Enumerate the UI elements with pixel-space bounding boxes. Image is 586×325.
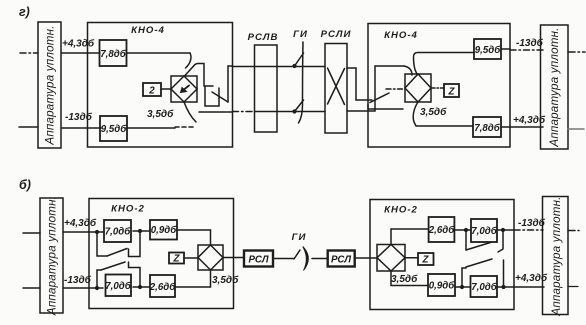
svg-text:7,0дб: 7,0дб <box>471 282 497 293</box>
multiplex equipment box right <box>541 25 569 149</box>
hybrid transformer (дифсистема) left <box>171 76 197 102</box>
wire to КНО-2 bottom <box>63 287 103 289</box>
wire ГИ to РСЛ right <box>312 258 328 260</box>
svg-text:Z: Z <box>448 87 456 98</box>
node <box>138 229 142 233</box>
node <box>464 228 468 232</box>
attenuator 7,0дб bottom <box>106 275 132 297</box>
wire РСЛ to ГИ <box>273 258 294 260</box>
attenuator 2,6дб <box>150 275 175 297</box>
wire out bottom <box>497 286 544 288</box>
svg-text:0,9дб: 0,9дб <box>429 281 455 292</box>
wire РСЛИ bottom to bypass <box>347 66 404 111</box>
switch blade bottom <box>295 100 304 112</box>
hybrid transformer BL <box>198 245 223 270</box>
wire РСЛИ to КНО-4 step <box>347 68 372 100</box>
wire to 9,5дб <box>61 127 101 129</box>
attenuator 2,6дб BR <box>429 217 455 242</box>
ГИ arc contact (crescent) <box>303 247 309 271</box>
wire hybrid top to 2,6дб <box>391 229 429 245</box>
svg-text:РСЛВ: РСЛВ <box>248 32 279 43</box>
svg-text:3,5дб: 3,5дб <box>420 106 447 118</box>
svg-text:ГИ: ГИ <box>293 29 308 40</box>
wire out top <box>497 229 514 231</box>
selector ГИ wiper bar <box>299 42 304 123</box>
wire output top-right dash-dot <box>568 51 585 53</box>
svg-text:г): г) <box>19 5 30 19</box>
svg-text:0,9дб: 0,9дб <box>151 225 177 236</box>
svg-text:КНО-4: КНО-4 <box>384 30 418 41</box>
svg-text:РСЛ: РСЛ <box>248 255 268 266</box>
attenuator 0,9дб <box>150 220 177 240</box>
svg-text:Z: Z <box>422 255 430 266</box>
wire to КНО-2 top <box>63 231 103 233</box>
svg-text:РСЛ: РСЛ <box>331 255 351 266</box>
arrow mark inside hybrid <box>184 86 189 90</box>
wire 7,8дб output <box>127 52 191 54</box>
multiplex equipment box right b <box>543 197 569 315</box>
svg-text:9,5дб: 9,5дб <box>101 124 127 135</box>
svg-text:-13дб: -13дб <box>516 37 544 49</box>
wire <box>133 230 150 232</box>
wire jack to box edge <box>228 66 233 102</box>
jack stub <box>368 104 403 109</box>
block КНО-2 left <box>89 199 234 309</box>
bypass switch upper right <box>465 230 467 250</box>
svg-text:-13дб: -13дб <box>518 217 546 229</box>
crossover X <box>328 68 345 105</box>
svg-text:ГИ: ГИ <box>292 232 307 243</box>
wire input bottom-left b <box>23 287 40 289</box>
wire 7,8дб out <box>501 126 543 128</box>
svg-text:7,8дб: 7,8дб <box>474 123 500 134</box>
svg-text:7,0дб: 7,0дб <box>105 281 131 292</box>
wire hybrid to Z dash-dot <box>431 87 444 89</box>
svg-text:КНО-2: КНО-2 <box>111 204 145 215</box>
wire 0,9дб to hybrid <box>177 230 211 245</box>
multiplex equipment box left (Аппаратура уплотн.) <box>38 22 61 148</box>
wire bypass out <box>199 111 233 113</box>
wire <box>455 286 471 288</box>
block КНО-2 right <box>370 200 514 310</box>
block КНО-4 left <box>88 23 233 148</box>
svg-text:3,5дб: 3,5дб <box>391 273 418 285</box>
wire hybrid top to jack <box>185 64 205 87</box>
svg-text:7,8дб: 7,8дб <box>100 49 126 60</box>
balance network box 2 <box>143 83 161 96</box>
svg-text:7,0дб: 7,0дб <box>471 226 497 237</box>
svg-text:РСЛИ: РСЛИ <box>321 29 352 40</box>
attenuator 7,0дб BR bottom <box>471 276 498 297</box>
balance network Z BR <box>418 253 434 265</box>
wire 9,5дб output dashed <box>126 127 175 129</box>
wire dash-dot input top-left <box>20 52 38 54</box>
svg-text:3,5дб: 3,5дб <box>212 274 239 286</box>
wire to 7,8дб <box>61 52 100 54</box>
node <box>501 285 505 289</box>
wire hybrid bottom to 0,9дб <box>391 271 428 286</box>
svg-text:+4,3дб: +4,3дб <box>64 217 97 229</box>
node <box>95 286 99 290</box>
attenuator 7,0дб top <box>104 220 131 242</box>
svg-text:+4,3дб: +4,3дб <box>62 38 95 50</box>
wire Z to hybrid BL <box>184 257 198 259</box>
attenuator 9,5дб <box>100 116 127 141</box>
wire КНО-4 to РСЛВ bottom dash-dot <box>233 111 256 113</box>
svg-text:7,0дб: 7,0дб <box>105 227 131 238</box>
balance network box Z <box>444 84 459 97</box>
node <box>460 285 464 289</box>
svg-text:3,5дб: 3,5дб <box>147 108 174 120</box>
bypass switch lower right <box>462 268 466 287</box>
wire 2,6дб to hybrid <box>175 270 211 287</box>
wire output bottom-right <box>568 128 584 130</box>
balance network Z BL <box>169 253 184 264</box>
bypass switch lower left <box>97 270 101 288</box>
movable contact top (arc) <box>186 53 191 68</box>
attenuator 7,0дб BR top <box>471 219 497 242</box>
svg-text:КНО-2: КНО-2 <box>384 205 418 216</box>
wire hybrid to РСЛ <box>223 257 244 259</box>
block РСЛ left <box>244 251 273 267</box>
wire hybrid bottom to 7,8дб <box>413 102 473 126</box>
node bottom contact <box>292 109 296 113</box>
svg-text:Аппаратура уплотн.: Аппаратура уплотн. <box>550 196 563 316</box>
attenuator 0,9дб BR <box>428 274 455 296</box>
movable contact bottom (arc) <box>184 102 196 122</box>
wire dash to hybrid <box>386 88 404 90</box>
svg-text:КНО-4: КНО-4 <box>131 25 165 36</box>
wire <box>133 286 150 288</box>
hybrid transformer right <box>405 74 431 102</box>
ГИ blade <box>294 250 300 259</box>
node <box>138 285 142 289</box>
svg-text:-13дб: -13дб <box>64 274 92 286</box>
wire КНО-4 to РСЛВ top <box>233 66 326 68</box>
switch blade right КНО-4 <box>370 93 389 103</box>
svg-text:-13дб: -13дб <box>65 111 93 123</box>
block РСЛИ <box>325 44 347 134</box>
switch blade top <box>295 53 304 66</box>
node top contact <box>292 64 296 68</box>
node <box>95 230 99 234</box>
hybrid transformer BR <box>377 245 405 272</box>
wire output bottom-right b <box>568 286 578 288</box>
attenuator 9,5дб right <box>474 39 501 59</box>
block РСЛ right <box>328 251 355 267</box>
wire 2 to hybrid <box>161 88 171 90</box>
svg-text:9,5дб: 9,5дб <box>475 45 501 56</box>
wire hybrid to Z BR <box>405 257 418 259</box>
attenuator 7,8дб <box>100 40 127 66</box>
svg-text:2,6дб: 2,6дб <box>428 225 455 236</box>
wire hybrid top to 9,5дб <box>414 53 475 75</box>
svg-text:Z: Z <box>173 254 181 265</box>
wire input bottom-left <box>19 126 38 128</box>
svg-text:2,6дб: 2,6дб <box>149 282 176 293</box>
svg-text:б): б) <box>19 178 31 192</box>
svg-text:2: 2 <box>148 86 155 97</box>
block РСЛВ <box>255 45 278 132</box>
attenuator 7,8дб right <box>473 117 501 137</box>
bypass switch upper left <box>97 232 107 256</box>
wire 9,5дб out <box>501 48 510 50</box>
multiplex equipment box left b <box>40 198 63 313</box>
wire output top-right b <box>568 230 579 232</box>
svg-text:Аппаратура уплотн.: Аппаратура уплотн. <box>46 196 59 316</box>
movable contact (arc) right top <box>404 66 412 75</box>
wire <box>454 229 471 231</box>
wire РСЛ to hybrid BR <box>355 257 377 259</box>
svg-text:Аппаратура уплотн.: Аппаратура уплотн. <box>548 27 561 147</box>
svg-text:Аппаратура уплотн.: Аппаратура уплотн. <box>44 25 57 145</box>
block КНО-4 right <box>368 24 510 148</box>
jack blade <box>212 92 228 102</box>
jack socket <box>205 86 219 106</box>
wire input top-left b <box>23 232 40 234</box>
